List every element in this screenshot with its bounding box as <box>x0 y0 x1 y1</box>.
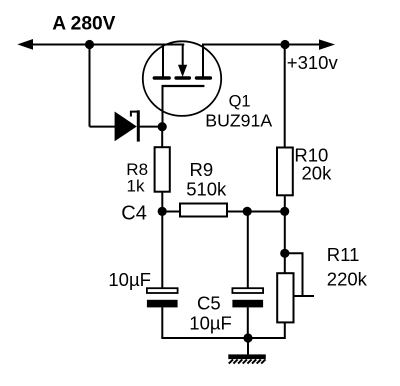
svg-text:+310v: +310v <box>287 52 339 73</box>
wire: rail junction down to R10 <box>284 45 286 148</box>
resistor R11 (potentiometer) <box>277 273 293 322</box>
wire: gate drop to node <box>162 86 164 127</box>
svg-text:Q1: Q1 <box>229 92 251 110</box>
diode D1 cathode hook <box>131 112 139 117</box>
wire: R10 to R11 <box>284 195 286 273</box>
node: rail junction to diode anode <box>85 40 94 49</box>
resistor R9 <box>180 204 227 217</box>
Q1 drain lead (right vertical) <box>202 45 204 78</box>
node: gate / diode / R8 junction <box>158 122 167 131</box>
capacitor C5 top plate <box>232 288 263 293</box>
wire: top rail right segment <box>202 44 322 46</box>
R11 wiper bar <box>293 295 314 297</box>
transistor Q1 circle <box>143 41 221 116</box>
Q1 body lead (middle vertical) <box>182 45 184 66</box>
diode D1 cathode bar <box>137 110 140 141</box>
diode D1 triangle <box>115 112 137 142</box>
node: C5 junction <box>243 207 252 216</box>
ground bar <box>228 354 265 359</box>
capacitor C4 top plate <box>147 288 178 293</box>
svg-text:R9: R9 <box>190 159 214 180</box>
Q1 source contact bar <box>154 76 169 79</box>
wire: rail junction down to diode anode <box>89 45 91 127</box>
Q1 body contact bar <box>176 76 189 79</box>
node: rail junction to R10 <box>280 40 289 49</box>
wire: ground stub <box>247 338 249 354</box>
Q1 drain contact bar <box>197 76 211 79</box>
svg-text:510k: 510k <box>186 179 227 200</box>
resistor R10 <box>277 148 293 196</box>
Q1 gate line <box>162 85 205 87</box>
wire: diode cathode to gate node <box>139 126 163 128</box>
wire: top rail left segment <box>30 44 184 46</box>
svg-text:C5: C5 <box>197 293 221 314</box>
svg-text:220k: 220k <box>327 269 368 290</box>
left arrow (output A) <box>17 39 33 50</box>
svg-text:C4: C4 <box>121 203 147 225</box>
wire: node to R9 <box>162 211 179 213</box>
wire: R11 bottom to ground wire <box>248 322 285 338</box>
node: ground junction <box>243 333 252 342</box>
wire: node to R8 <box>161 127 163 148</box>
svg-text:10µF: 10µF <box>189 312 232 333</box>
right arrow (+310v input) <box>319 39 335 50</box>
svg-text:20k: 20k <box>302 163 333 184</box>
svg-text:BUZ91A: BUZ91A <box>205 111 272 131</box>
wire: C4 to bottom rail <box>161 307 163 338</box>
ground hatching <box>229 359 266 363</box>
capacitor C4 bottom plate <box>147 300 178 308</box>
wire: C5 node down to C5 plate <box>247 212 249 289</box>
wire: diode anode horizontal <box>90 126 116 128</box>
wire: C5 to bottom rail <box>247 307 249 338</box>
wire: bottom rail <box>161 337 285 339</box>
node: R11 wiper junction <box>280 249 289 258</box>
Q1 source lead (left vertical) <box>162 45 164 78</box>
wire: C4 node down to C4 plate <box>161 212 163 289</box>
Q1 body arrow <box>178 65 187 77</box>
node: R10 bottom junction <box>280 207 289 216</box>
svg-text:R11: R11 <box>327 244 360 265</box>
svg-text:1k: 1k <box>127 177 145 196</box>
svg-text:10µF: 10µF <box>108 269 151 290</box>
node: C4 / R8 / R9 junction <box>158 207 167 216</box>
resistor R8 <box>155 147 170 192</box>
capacitor C5 bottom plate <box>232 300 263 308</box>
wire: R8 to C4 node <box>161 193 163 212</box>
R11 wiper link <box>285 253 303 296</box>
svg-text:A 280V: A 280V <box>52 14 115 35</box>
wire: R9 to R10 bottom node <box>228 211 285 213</box>
